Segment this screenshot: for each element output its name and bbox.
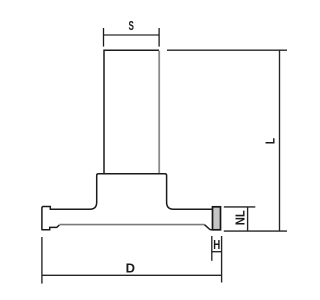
dimension H line [212,251,222,253]
dimension H right extension line [221,236,223,283]
dimension H left extension line [211,236,213,261]
left end cap bottom steps [41,225,59,230]
dimension D left extension line [41,237,43,284]
dimension S left tick [103,28,105,47]
body bottom line [59,224,204,226]
svg-text:L: L [263,138,278,144]
dimension NL vertical line [247,207,249,231]
svg-text:S: S [129,18,135,33]
svg-text:NL: NL [232,210,247,225]
dimension NL top extension line [224,206,256,208]
dimension L vertical line [279,50,281,231]
contact tip pad (gray) [213,207,221,230]
dimension S right tick [158,28,160,47]
right taper into tip [205,225,213,230]
flange body top profile with left end cap [42,174,212,230]
shaft (stem) left and top outline [104,50,159,173]
dimension D line [42,274,222,276]
dimension L top extension line [167,49,287,51]
dimension L / NL bottom extension line [224,230,287,232]
shaft (stem) right edge [158,51,160,174]
dimension S line [104,34,160,36]
svg-text:D: D [126,260,135,275]
svg-text:H: H [213,237,220,252]
